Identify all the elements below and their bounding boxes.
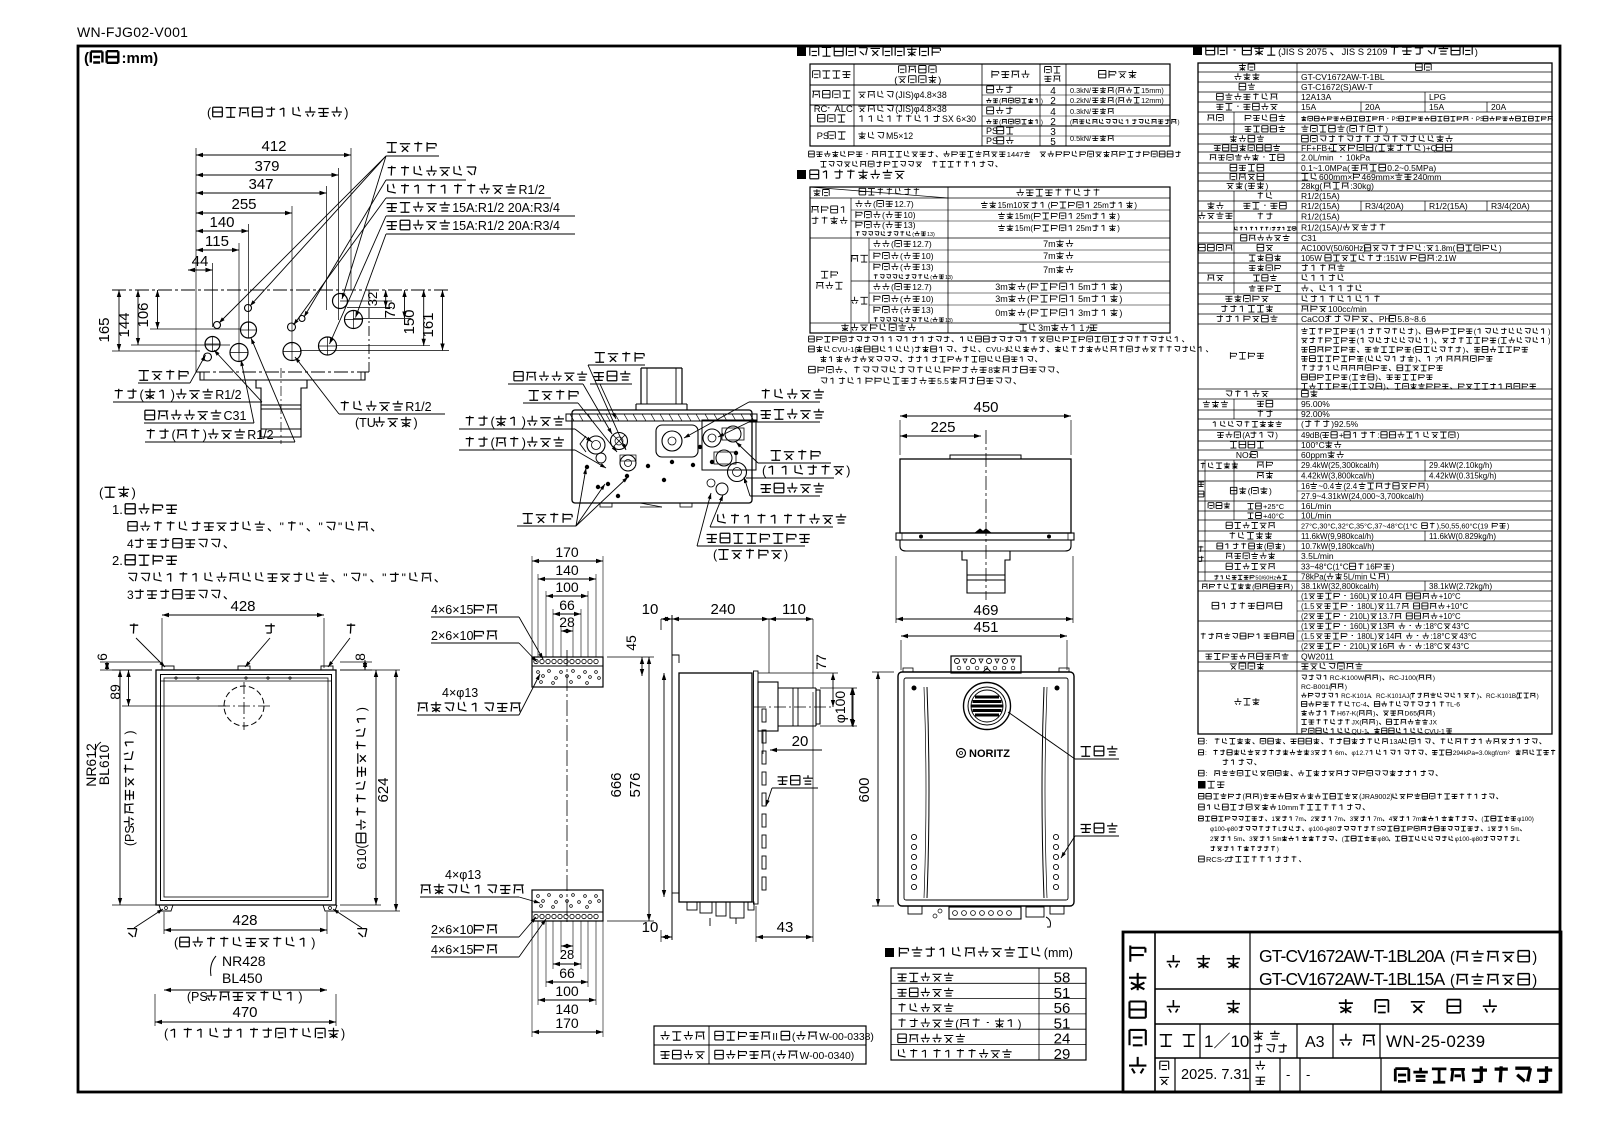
top view dim 44 <box>188 269 213 271</box>
svg-text:28: 28 <box>560 947 574 962</box>
svg-text:10: 10 <box>642 919 659 936</box>
svg-text:RC-B001(: RC-B001( <box>1301 684 1332 691</box>
svg-text:11.7: 11.7 <box>1386 602 1401 611</box>
svg-text:): ) <box>1532 950 1537 966</box>
svg-text:469: 469 <box>973 602 998 619</box>
port circle earth screw <box>299 316 305 322</box>
svg-text:50/60Hz: 50/60Hz <box>1255 576 1276 582</box>
rear view louver dots left <box>911 834 916 839</box>
svg-text:33~48°C(1°C: 33~48°C(1°C <box>1301 563 1349 572</box>
svg-text:(: ( <box>1375 143 1378 153</box>
top view left extension lines <box>112 350 200 352</box>
svg-text:TC-4: TC-4 <box>1352 702 1367 709</box>
svg-text:5m: 5m <box>1273 836 1282 843</box>
bottom view drain valve <box>620 455 636 471</box>
label water supply2 <box>761 409 824 419</box>
svg-text:160L): 160L) <box>1350 592 1370 601</box>
svg-text:W-00-0338): W-00-0338) <box>819 1032 874 1043</box>
bottom view gas valve <box>656 425 698 457</box>
label bath out <box>147 429 169 439</box>
spec rows simple <box>1234 73 1259 80</box>
svg-text:1: 1 <box>1272 816 1276 823</box>
svg-text:29: 29 <box>1054 1046 1071 1063</box>
svg-text:600mm×: 600mm× <box>1319 172 1352 182</box>
title date row <box>1160 1061 1169 1069</box>
svg-text:12.7): 12.7) <box>894 199 914 209</box>
svg-text:106: 106 <box>135 302 152 327</box>
right dim 610 <box>375 670 377 905</box>
svg-text:R1/2: R1/2 <box>405 400 431 414</box>
svg-text:7m: 7m <box>1295 816 1304 823</box>
svg-text:φ100-φ80: φ100-φ80 <box>1309 826 1337 833</box>
svg-text:(TU: (TU <box>355 416 376 430</box>
svg-text:): ) <box>522 415 526 429</box>
svg-text:12.7): 12.7) <box>912 282 932 292</box>
svg-text:4.42kW(0.315kg/h): 4.42kW(0.315kg/h) <box>1429 472 1497 481</box>
dim 89 <box>128 670 130 706</box>
svg-text:(: ( <box>891 282 894 292</box>
svg-text:M5×12: M5×12 <box>886 131 913 141</box>
svg-text::mm): :mm) <box>122 50 159 67</box>
top view dim 161 <box>442 290 444 351</box>
right top view body <box>900 459 1071 533</box>
top view body bottom line <box>196 371 369 373</box>
table2 title <box>797 170 806 179</box>
svg-text:): ) <box>1291 584 1293 591</box>
svg-text:(: ( <box>1248 486 1251 496</box>
svg-text:): ) <box>1178 119 1180 126</box>
svg-text:0.3kN/: 0.3kN/ <box>1070 107 1092 116</box>
top view dim 412 <box>196 154 351 156</box>
svg-text:): ) <box>1373 711 1375 718</box>
svg-text:1447: 1447 <box>1007 150 1024 159</box>
svg-text:FF+FB+: FF+FB+ <box>1301 143 1332 153</box>
port circle overflow small <box>288 323 296 331</box>
svg-text:CVU-1: CVU-1 <box>986 345 1009 354</box>
top view dim 255 <box>196 212 292 214</box>
svg-text:16: 16 <box>1378 642 1387 651</box>
svg-text:R1/2(15A): R1/2(15A) <box>1429 201 1468 211</box>
label gas conn <box>341 401 403 411</box>
labels i bottom <box>127 929 137 937</box>
svg-text:NR428: NR428 <box>222 953 266 969</box>
svg-text:2: 2 <box>1050 96 1056 107</box>
label hot water2 <box>761 483 824 493</box>
svg-text:7m: 7m <box>1412 816 1421 823</box>
svg-text:66: 66 <box>559 597 575 613</box>
svg-text:105W: 105W <box>1301 254 1322 263</box>
svg-text:): ) <box>203 428 207 442</box>
svg-text:BL450: BL450 <box>222 970 263 986</box>
top view dim 379 <box>196 174 339 176</box>
svg-text:): ) <box>414 416 418 430</box>
svg-text:(A: (A <box>1242 431 1251 440</box>
svg-text::: : <box>1377 431 1379 440</box>
port circle water supply <box>319 337 337 355</box>
svg-text:(: ( <box>873 199 876 209</box>
dim 576 <box>663 673 665 897</box>
svg-text:): ) <box>298 990 302 1004</box>
label water supply conn <box>387 202 450 212</box>
title block frame <box>1123 932 1561 1092</box>
svg-text:6m: 6m <box>1335 750 1345 757</box>
svg-text:(: ( <box>891 239 894 249</box>
svg-text:RC-K101AJ(: RC-K101AJ( <box>1376 693 1412 700</box>
svg-text:): ) <box>1275 431 1278 440</box>
svg-text:(: ( <box>882 210 885 220</box>
svg-text::: : <box>1205 750 1207 757</box>
front frame top shelf <box>160 680 332 682</box>
top view dim 75 <box>404 290 406 319</box>
svg-text:(mm): (mm) <box>1044 946 1073 960</box>
bottom dim 428 <box>164 929 327 931</box>
svg-text:2×6×10: 2×6×10 <box>431 629 473 643</box>
svg-text:150: 150 <box>401 309 418 334</box>
label earth screw <box>388 166 476 176</box>
svg-text:): ) <box>938 75 941 86</box>
svg-text:7m: 7m <box>1334 816 1343 823</box>
spec safety row <box>1230 352 1264 359</box>
svg-text:160L): 160L) <box>1350 622 1370 631</box>
svg-text:240mm: 240mm <box>1413 172 1441 182</box>
svg-text:): ) <box>1134 201 1137 210</box>
svg-text:38.1kW(32,800kcal/h): 38.1kW(32,800kcal/h) <box>1301 582 1379 591</box>
svg-text:5.5: 5.5 <box>937 376 949 386</box>
svg-text:": " <box>382 571 386 585</box>
right top view pipe <box>962 551 1010 593</box>
svg-text:L: L <box>1516 836 1520 843</box>
svg-text:RC-K101A: RC-K101A <box>1341 693 1372 700</box>
top view flange <box>200 372 365 380</box>
svg-text:): ) <box>1475 46 1478 57</box>
port circle bath return <box>205 337 220 352</box>
svg-text:165: 165 <box>96 317 113 342</box>
label exhaust port <box>1081 746 1118 756</box>
svg-text:140: 140 <box>209 214 234 231</box>
label conduit C31 <box>145 410 221 420</box>
svg-text:φ100-φ80: φ100-φ80 <box>1210 826 1238 833</box>
port circle drain small A <box>214 322 221 329</box>
top view dim 140 <box>196 230 249 232</box>
svg-text:100cc/min: 100cc/min <box>1328 304 1367 314</box>
svg-text:(: ( <box>1301 419 1304 429</box>
svg-text:(1.5: (1.5 <box>1301 632 1315 641</box>
svg-text:600: 600 <box>856 777 873 802</box>
svg-text:428: 428 <box>232 912 257 929</box>
svg-text::18°C: :18°C <box>1423 622 1443 631</box>
svg-text:210L): 210L) <box>1350 612 1370 621</box>
svg-text:210L): 210L) <box>1350 642 1370 651</box>
svg-text:φ80: φ80 <box>1378 836 1390 843</box>
svg-text:15A:R1/2 20A:R3/4: 15A:R1/2 20A:R3/4 <box>452 219 560 233</box>
svg-text:SX 6×30: SX 6×30 <box>942 114 976 124</box>
svg-text:(: ( <box>1027 282 1030 292</box>
svg-text::30kg): :30kg) <box>1350 181 1374 191</box>
svg-text:11.6kW(0.829kg/h): 11.6kW(0.829kg/h) <box>1429 532 1496 541</box>
svg-text:(: ( <box>900 251 903 261</box>
top plate <box>532 657 603 687</box>
rear view bottom parts <box>949 907 1021 919</box>
svg-text:+: + <box>1339 431 1344 440</box>
svg-text:(1.5: (1.5 <box>1301 602 1315 611</box>
svg-text:): ) <box>1387 573 1390 582</box>
svg-text:5L/min: 5L/min <box>1343 573 1367 582</box>
svg-text:255: 255 <box>231 196 256 213</box>
svg-text:4×φ13: 4×φ13 <box>442 686 478 700</box>
spec reheat time <box>1212 602 1282 609</box>
svg-text::18°C: :18°C <box>1431 632 1451 641</box>
svg-text:): ) <box>1537 693 1539 700</box>
svg-text:5m: 5m <box>1511 826 1520 833</box>
svg-text:(JRA9002): (JRA9002) <box>1359 794 1392 801</box>
svg-text:RC-K101B(: RC-K101B( <box>1486 693 1519 700</box>
spec table title <box>1193 46 1202 55</box>
svg-text:15A:R1/2 20A:R3/4: 15A:R1/2 20A:R3/4 <box>452 201 560 215</box>
svg-text:10): 10) <box>921 251 933 261</box>
label hot water conn <box>387 220 450 230</box>
svg-text:(JIS)φ4.8×38: (JIS)φ4.8×38 <box>895 104 947 114</box>
svg-text:240: 240 <box>710 601 735 618</box>
svg-text:): ) <box>1266 181 1269 191</box>
svg-text:φ100: φ100 <box>832 691 848 724</box>
svg-text:92.00%: 92.00% <box>1301 409 1330 419</box>
svg-text:45: 45 <box>623 635 639 651</box>
svg-text:(: ( <box>900 262 903 272</box>
svg-text:): ) <box>1119 282 1122 292</box>
label gas2 <box>762 389 824 399</box>
svg-text:2: 2 <box>1311 816 1315 823</box>
rear view body <box>898 672 1074 906</box>
svg-text:): ) <box>1345 684 1347 691</box>
svg-text:): ) <box>1507 522 1509 531</box>
svg-text:4: 4 <box>127 537 134 551</box>
side view 45 dim <box>641 657 643 676</box>
svg-text:16: 16 <box>1366 563 1375 572</box>
svg-text:7m: 7m <box>1043 251 1056 261</box>
svg-text:): ) <box>1392 563 1395 572</box>
svg-text:13): 13) <box>945 275 953 281</box>
svg-text:R1/2(15A): R1/2(15A) <box>1301 191 1340 201</box>
svg-text:): ) <box>1119 294 1122 304</box>
bottom view bottom tabs <box>600 503 612 507</box>
front frame dim 428 top <box>162 614 324 616</box>
top view body right edge <box>368 290 370 372</box>
svg-text::18°C: :18°C <box>1423 642 1443 651</box>
svg-text:3m: 3m <box>995 282 1008 292</box>
svg-text:WN-25-0239: WN-25-0239 <box>1386 1032 1485 1051</box>
svg-text:II: II <box>772 1032 778 1043</box>
label intake top <box>594 371 631 381</box>
svg-text:(: ( <box>1450 973 1455 989</box>
svg-text:3: 3 <box>1350 816 1354 823</box>
label drain bottom-left <box>523 513 573 523</box>
svg-text:43°C: 43°C <box>1452 642 1470 651</box>
svg-text:R3/4(20A): R3/4(20A) <box>1491 201 1530 211</box>
svg-text:φ12.7: φ12.7 <box>1352 750 1369 757</box>
svg-text:(: ( <box>930 318 932 324</box>
small left dim marks <box>852 688 854 727</box>
title scale row <box>1160 1035 1172 1046</box>
rear view dim 600 <box>877 672 879 906</box>
svg-text:11.6kW(9,980kcal/h): 11.6kW(9,980kcal/h) <box>1301 532 1374 541</box>
svg-text:294kPa=3.0kgf/cm²: 294kPa=3.0kgf/cm² <box>1453 750 1511 757</box>
svg-text::151W: :151W <box>1384 254 1408 263</box>
dim PS pitch <box>164 989 327 991</box>
side view dim 20 <box>770 749 822 751</box>
svg-text:666: 666 <box>608 772 625 797</box>
svg-text:): ) <box>1260 794 1262 801</box>
svg-text:-: - <box>1286 1067 1290 1082</box>
spec notes <box>1199 738 1205 744</box>
svg-text:7m: 7m <box>1043 239 1056 249</box>
rear view mount dots <box>912 686 917 691</box>
svg-text:624: 624 <box>375 777 392 802</box>
svg-text:(: ( <box>1346 124 1349 134</box>
svg-text:R3/4(20A): R3/4(20A) <box>1365 201 1404 211</box>
svg-text:3m: 3m <box>1078 308 1091 318</box>
svg-text:1.8m(: 1.8m( <box>1435 244 1456 253</box>
svg-text:7m: 7m <box>1373 816 1382 823</box>
spec piping group <box>1207 202 1223 209</box>
svg-text:): ) <box>1117 224 1120 233</box>
svg-text:(: ( <box>792 1032 796 1043</box>
title drawing name <box>1167 1000 1180 1013</box>
side view exhaust assembly <box>758 682 778 731</box>
svg-text:60ppm: 60ppm <box>1301 450 1327 460</box>
top view dim extension lines <box>195 148 197 290</box>
right top view lower casing <box>900 540 1071 551</box>
svg-text:": " <box>402 571 406 585</box>
svg-text:R1/2(15A): R1/2(15A) <box>1301 212 1340 222</box>
svg-text:13): 13) <box>921 305 933 315</box>
svg-text:(: ( <box>84 50 89 67</box>
svg-text:5m: 5m <box>1078 282 1091 292</box>
svg-text:5: 5 <box>1050 137 1056 148</box>
top view right extension lines <box>340 300 392 302</box>
svg-text:4: 4 <box>1389 816 1393 823</box>
svg-text:10.7kW(9,180kcal/h): 10.7kW(9,180kcal/h) <box>1301 542 1375 551</box>
table2 notes <box>809 336 1184 342</box>
svg-text:10.4: 10.4 <box>1378 592 1394 601</box>
svg-text:4×6×15: 4×6×15 <box>431 943 473 957</box>
svg-text:32: 32 <box>365 292 380 306</box>
spec table frame <box>1198 63 1552 734</box>
svg-text:H67-K(: H67-K( <box>1337 711 1359 718</box>
bottom view internals left valve <box>587 436 605 454</box>
svg-text:10: 10 <box>642 601 659 618</box>
label pressure relief <box>707 533 810 543</box>
svg-text:15m10: 15m10 <box>998 201 1023 210</box>
svg-text:180L): 180L) <box>1357 632 1377 641</box>
svg-text:0.3kN/: 0.3kN/ <box>1070 86 1092 95</box>
spec table value sub lines <box>1297 600 1552 602</box>
svg-text:12mm): 12mm) <box>1141 96 1164 105</box>
svg-text:2: 2 <box>1210 836 1214 843</box>
top view dim 347 <box>196 192 327 194</box>
svg-text:(2: (2 <box>1301 642 1308 651</box>
svg-text:225: 225 <box>930 419 955 436</box>
spec electric group <box>1199 244 1233 251</box>
svg-text:): ) <box>311 936 315 950</box>
svg-text:LPG: LPG <box>1429 92 1446 102</box>
svg-text::: : <box>1206 737 1208 746</box>
svg-text:),50,55,60°C(19: ),50,55,60°C(19 <box>1437 522 1489 531</box>
table2 rows lower <box>868 238 870 323</box>
exhaust hole dashed circle <box>224 686 264 726</box>
svg-text:(: ( <box>99 485 104 500</box>
svg-text:(: ( <box>900 294 903 304</box>
svg-text:49dB(: 49dB( <box>1301 431 1323 440</box>
svg-text:R1/2: R1/2 <box>519 183 545 197</box>
svg-text:100: 100 <box>555 983 579 999</box>
svg-text:(JIS S 2075: (JIS S 2075 <box>1278 46 1327 57</box>
svg-text:": " <box>299 520 303 534</box>
svg-text:): ) <box>1041 119 1043 126</box>
svg-text:0.2kN/: 0.2kN/ <box>1070 96 1092 105</box>
svg-text:(PS: (PS <box>123 825 137 846</box>
svg-text:4.42kW(3,800kcal/h): 4.42kW(3,800kcal/h) <box>1301 472 1375 481</box>
svg-text:38.1kW(2.72kg/h): 38.1kW(2.72kg/h) <box>1429 582 1492 591</box>
svg-text:+40°C: +40°C <box>1263 512 1285 521</box>
svg-text:~0.4: ~0.4 <box>1318 482 1334 491</box>
svg-text:): ) <box>123 730 137 734</box>
svg-text:66: 66 <box>559 965 575 981</box>
svg-text:CaCO3: CaCO3 <box>1301 314 1330 324</box>
svg-text:13: 13 <box>1378 622 1387 631</box>
svg-text:φ100-φ80: φ100-φ80 <box>1455 836 1483 843</box>
company logo <box>1395 1068 1465 1082</box>
svg-text:": " <box>338 520 342 534</box>
svg-text:JIS S 2109: JIS S 2109 <box>1342 46 1388 57</box>
svg-text:": " <box>319 520 323 534</box>
svg-text:470: 470 <box>232 1004 257 1021</box>
side view dim phi100 <box>851 688 853 726</box>
svg-text:576: 576 <box>627 772 644 797</box>
svg-text:180L): 180L) <box>1357 602 1377 611</box>
svg-text:): ) <box>1269 486 1272 496</box>
svg-text:(: ( <box>1027 308 1030 318</box>
side view wall line <box>671 615 673 940</box>
svg-text:(2.4: (2.4 <box>1343 482 1357 491</box>
svg-text:JX: JX <box>1429 720 1437 727</box>
svg-text:+10°C: +10°C <box>1446 602 1468 611</box>
svg-text:10kPa: 10kPa <box>1346 153 1370 163</box>
svg-text:100: 100 <box>555 579 579 595</box>
side view dims 10/240/110 <box>661 618 672 620</box>
table1 title <box>797 47 806 56</box>
svg-text:RC-J100(: RC-J100( <box>1389 675 1419 682</box>
title block grid <box>1154 932 1156 1092</box>
svg-text:(: ( <box>955 1018 959 1030</box>
svg-text:5.8~8.6: 5.8~8.6 <box>1397 314 1426 324</box>
svg-text:20A: 20A <box>1491 102 1506 112</box>
svg-text:): ) <box>1018 1018 1022 1030</box>
top view dim 106 <box>157 290 159 329</box>
svg-text:-: - <box>1306 1067 1310 1082</box>
svg-text:(: ( <box>772 1051 776 1062</box>
bottom plate dims <box>561 945 573 947</box>
note mark <box>1198 781 1206 789</box>
svg-text:): ) <box>341 1027 345 1041</box>
svg-text:): ) <box>1532 973 1537 989</box>
svg-text:13): 13) <box>903 220 915 230</box>
svg-text:10L/min: 10L/min <box>1301 511 1332 521</box>
center line through plates <box>566 650 568 925</box>
svg-text:GT-CV1672AW-T-1BL20A: GT-CV1672AW-T-1BL20A <box>1259 946 1446 966</box>
svg-text:2.0L/min: 2.0L/min <box>1301 153 1334 163</box>
svg-text:347: 347 <box>248 176 273 193</box>
port circle drain small B <box>245 305 252 312</box>
